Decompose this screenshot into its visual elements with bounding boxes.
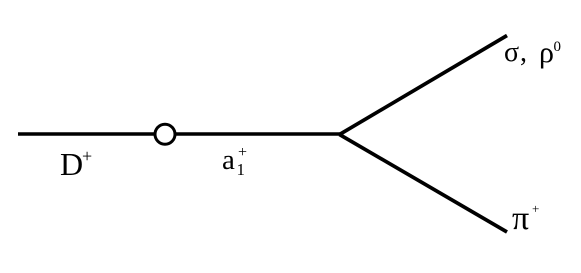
node D+ label: [60, 148, 83, 180]
wire sigma/rho upper outgoing line: [340, 36, 508, 135]
node sigma, rho0 label: [504, 39, 519, 67]
node pi+ label: [512, 202, 529, 236]
wire pi+ lower outgoing line: [340, 135, 508, 233]
node a1+ label: [222, 146, 235, 175]
node: open circle vertex on D+ line: [155, 124, 175, 144]
wire D+ incoming line: [18, 132, 340, 136]
